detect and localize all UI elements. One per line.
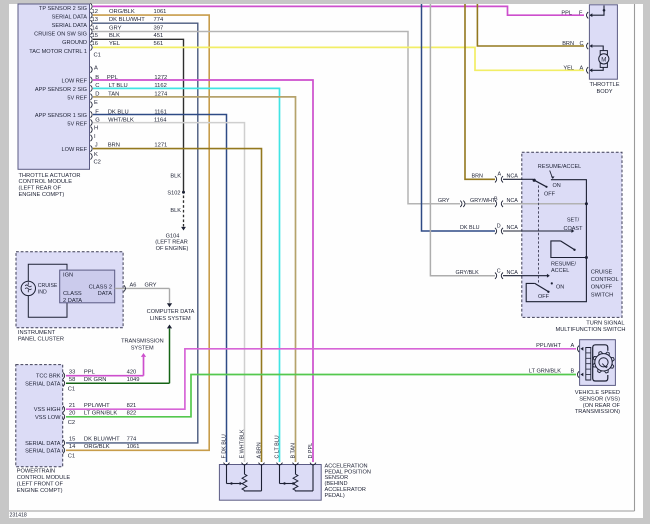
wire PPL 420 TCC brake (PCM 33) (66, 370, 144, 376)
label: cruise control on/off switch (591, 270, 619, 299)
svg-text:PPL: PPL (107, 75, 119, 81)
svg-text:BLK: BLK (109, 33, 120, 39)
svg-text:NCA: NCA (507, 174, 519, 180)
wire BRN (off-page) to cruise switch pin A (465, 4, 533, 183)
svg-text:(LEFT REAR OF: (LEFT REAR OF (19, 186, 62, 192)
svg-text:DK BLU/WHT: DK BLU/WHT (109, 17, 145, 23)
svg-text:A: A (498, 172, 502, 178)
svg-text:774: 774 (127, 437, 137, 443)
svg-text:774: 774 (154, 17, 164, 23)
junction: set/coast leg on circuit path (585, 256, 588, 259)
svg-text:LT GRN/BLK: LT GRN/BLK (84, 411, 117, 417)
svg-text:13: 13 (92, 17, 98, 23)
svg-text:1049: 1049 (127, 377, 140, 383)
svg-text:DK GRN: DK GRN (84, 377, 107, 383)
svg-text:5V REF: 5V REF (67, 95, 87, 101)
svg-text:14: 14 (69, 444, 76, 450)
wire: lamp to IGN (class 2 box) (28, 264, 67, 281)
wire BLK to ground (170, 196, 183, 225)
svg-text:D: D (95, 92, 99, 98)
switch: resume/accel on/off (bottom) (535, 262, 577, 300)
svg-text:A6: A6 (130, 283, 137, 289)
svg-text:A: A (94, 66, 98, 72)
svg-text:TRANSMISSION: TRANSMISSION (121, 339, 164, 345)
svg-text:GRY/WHT: GRY/WHT (470, 198, 496, 204)
svg-text:TP SENSOR 2 SIG: TP SENSOR 2 SIG (39, 6, 87, 12)
svg-text:ON/OFF: ON/OFF (591, 285, 613, 291)
svg-text:F: F (579, 10, 583, 16)
class 2 data module (inner box) (60, 270, 115, 304)
svg-text:58: 58 (69, 377, 75, 383)
svg-text:VSS HIGH: VSS HIGH (34, 407, 61, 413)
turn signal multifunction switch (dashed box) (522, 152, 626, 332)
svg-text:M: M (601, 56, 606, 63)
svg-text:RESUME/ACCEL: RESUME/ACCEL (538, 164, 581, 170)
svg-text:33: 33 (69, 370, 75, 376)
svg-text:397: 397 (154, 25, 164, 31)
svg-text:14: 14 (92, 25, 99, 31)
svg-text:LOW REF: LOW REF (62, 78, 88, 84)
off-page arrow: computer data lines system (147, 288, 195, 321)
svg-text:BLK: BLK (170, 173, 181, 179)
svg-text:451: 451 (154, 33, 164, 39)
svg-text:F DK BLU: F DK BLU (221, 434, 227, 458)
svg-text:E WHT/BLK: E WHT/BLK (239, 429, 245, 458)
svg-text:NCA: NCA (507, 225, 519, 231)
svg-text:OF ENGINE): OF ENGINE) (156, 246, 189, 252)
svg-text:2 DATA: 2 DATA (63, 298, 82, 304)
svg-text:APP SENSOR 2 SIG: APP SENSOR 2 SIG (35, 87, 87, 93)
svg-text:CONTROL: CONTROL (591, 277, 619, 283)
svg-text:DK BLU/WHT: DK BLU/WHT (84, 437, 120, 443)
svg-text:SET/: SET/ (567, 218, 580, 224)
svg-text:E: E (94, 100, 98, 106)
wire PPL (TP sensor 2 sig) to throttle body pin F (93, 6, 584, 16)
svg-text:BODY: BODY (596, 89, 612, 95)
svg-text:VSS LOW: VSS LOW (35, 415, 61, 421)
svg-text:B: B (571, 369, 575, 375)
svg-text:CONTROL MODULE: CONTROL MODULE (17, 475, 71, 481)
svg-text:LOW REF: LOW REF (62, 147, 88, 153)
svg-text:K: K (94, 152, 98, 158)
svg-text:GRY: GRY (438, 198, 450, 204)
svg-text:1271: 1271 (154, 143, 167, 149)
indicator lamp: cruise ind (21, 281, 58, 295)
svg-text:IGN: IGN (63, 273, 73, 279)
svg-text:(LEFT FRONT OF: (LEFT FRONT OF (17, 481, 64, 487)
svg-text:ON: ON (556, 284, 564, 290)
svg-text:S102: S102 (167, 190, 180, 196)
svg-text:(LEFT REAR: (LEFT REAR (155, 240, 188, 246)
potentiometer: APP sensor 1 (F/E/A) (227, 465, 262, 491)
svg-text:BRN: BRN (108, 143, 120, 149)
svg-text:NCA: NCA (507, 270, 519, 276)
svg-text:SERIAL DATA: SERIAL DATA (25, 441, 61, 447)
svg-text:CLASS: CLASS (63, 291, 82, 297)
svg-text:TAN: TAN (108, 92, 119, 98)
vehicle speed sensor (575, 340, 621, 416)
svg-text:CONTROL MODULE: CONTROL MODULE (19, 179, 73, 185)
svg-text:TURN SIGNAL: TURN SIGNAL (586, 320, 624, 326)
svg-text:12: 12 (92, 9, 98, 15)
svg-text:CLASS 2: CLASS 2 (89, 285, 112, 291)
svg-text:PPL: PPL (84, 370, 96, 376)
svg-text:THROTTLE ACTUATOR: THROTTLE ACTUATOR (19, 173, 81, 179)
svg-text:BLK: BLK (170, 208, 181, 214)
wire YEL 561 TAC motor control to throttle body pin A (92, 41, 585, 71)
svg-text:SERIAL DATA: SERIAL DATA (52, 15, 88, 21)
svg-text:G: G (95, 117, 100, 123)
wire BLK 451 ground (TACM 15 to S102) (92, 33, 184, 192)
svg-text:LT BLU: LT BLU (109, 83, 128, 89)
svg-text:OFF: OFF (544, 192, 556, 198)
svg-text:TCC BRK: TCC BRK (36, 374, 61, 380)
svg-text:POWERTRAIN: POWERTRAIN (17, 468, 55, 474)
wire DK BLU/WHT 774 serial data (TACM 13 to PCM 15) (66, 17, 198, 443)
svg-text:DK BLU: DK BLU (108, 109, 129, 115)
svg-text:J: J (95, 143, 98, 149)
wire stubs inside switch box (521, 179, 586, 277)
svg-text:THROTTLE: THROTTLE (589, 82, 619, 88)
svg-text:822: 822 (127, 411, 137, 417)
svg-text:A: A (580, 66, 584, 72)
wire GRY/BLK (off-page) to cruise switch pin C (430, 4, 549, 279)
svg-text:DK BLU: DK BLU (460, 225, 480, 231)
svg-text:5V REF: 5V REF (67, 121, 87, 127)
svg-text:GROUND: GROUND (62, 40, 87, 46)
svg-text:INSTRUMENT: INSTRUMENT (18, 330, 56, 336)
APP sensor pin brackets and labels (221, 429, 316, 465)
svg-text:H: H (94, 126, 98, 132)
svg-text:C1: C1 (68, 454, 75, 460)
svg-text:821: 821 (127, 403, 137, 409)
svg-text:IND: IND (38, 290, 47, 296)
svg-text:MULTIFUNCTION SWITCH: MULTIFUNCTION SWITCH (555, 327, 625, 333)
svg-text:BRN: BRN (472, 174, 483, 180)
off-page arrow: transmission system (121, 339, 164, 376)
svg-text:15: 15 (92, 33, 98, 39)
junction: pin B wire on circuit path (585, 202, 588, 205)
wire: lamp to class 2 data (28, 295, 67, 317)
svg-text:LINES SYSTEM: LINES SYSTEM (150, 316, 191, 322)
svg-text:ENGINE COMPT): ENGINE COMPT) (17, 488, 63, 494)
svg-text:SERIAL DATA: SERIAL DATA (25, 382, 61, 388)
potentiometer: APP sensor 2 (C/B/D) (280, 465, 314, 491)
module: throttle actuator control module (18, 3, 101, 169)
wire GRY A6 class 2 serial data (115, 283, 170, 292)
svg-text:YEL: YEL (109, 41, 121, 47)
svg-text:GRY: GRY (109, 25, 122, 31)
splice S102 (167, 190, 185, 196)
svg-text:231418: 231418 (10, 512, 27, 518)
svg-text:B: B (95, 75, 99, 81)
svg-text:420: 420 (127, 370, 137, 376)
svg-text:16: 16 (92, 41, 98, 47)
svg-text:BRN: BRN (562, 41, 574, 47)
svg-text:ORG/BLK: ORG/BLK (109, 9, 135, 15)
powertrain control module (dashed box) (16, 365, 75, 494)
svg-text:PEDAL): PEDAL) (325, 493, 345, 499)
switch internal circuit path (526, 180, 586, 302)
acceleration pedal position sensor (219, 463, 371, 500)
wire ORG/BLK 1061 serial data (TACM 12 to PCM 14) (66, 9, 209, 450)
svg-text:DATA: DATA (98, 291, 113, 297)
svg-text:APP SENSOR 1 SIG: APP SENSOR 1 SIG (35, 113, 87, 119)
throttle body (587, 5, 620, 95)
svg-text:C: C (95, 83, 99, 89)
svg-text:C LT BLU: C LT BLU (274, 435, 280, 458)
svg-text:1161: 1161 (154, 109, 166, 115)
svg-text:F: F (95, 109, 99, 115)
svg-text:NCA: NCA (507, 198, 519, 204)
wire PPL/WHT 821 VSS high (PCM 21 to VSS A) (66, 343, 576, 409)
svg-text:PANEL CLUSTER: PANEL CLUSTER (18, 337, 64, 343)
svg-text:LT GRN/BLK: LT GRN/BLK (529, 369, 561, 375)
svg-text:CRUISE: CRUISE (591, 270, 613, 276)
svg-text:SERIAL DATA: SERIAL DATA (52, 23, 88, 29)
svg-text:SERIAL DATA: SERIAL DATA (25, 449, 61, 455)
svg-text:ENGINE COMPT): ENGINE COMPT) (19, 192, 65, 198)
svg-text:1272: 1272 (154, 75, 167, 81)
svg-text:SYSTEM: SYSTEM (131, 345, 154, 351)
switch: set/coast (551, 218, 587, 258)
wire WHT/BLK 1164 (TACM G to APP sensor pin E) (93, 117, 245, 462)
svg-text:B TAN: B TAN (290, 443, 296, 458)
svg-text:RESUME/: RESUME/ (551, 262, 577, 268)
svg-text:C: C (580, 41, 584, 47)
svg-text:VEHICLE SPEED: VEHICLE SPEED (575, 390, 620, 396)
svg-text:561: 561 (154, 41, 164, 47)
svg-text:PPL/WHT: PPL/WHT (536, 343, 561, 349)
svg-text:15: 15 (69, 437, 75, 443)
svg-text:C1: C1 (94, 53, 101, 59)
svg-text:GRY: GRY (145, 283, 157, 289)
svg-text:D: D (497, 223, 501, 229)
svg-text:21: 21 (69, 403, 75, 409)
svg-text:1061: 1061 (154, 9, 167, 15)
module name label (19, 173, 81, 198)
svg-text:C: C (497, 268, 501, 274)
svg-text:ORG/BLK: ORG/BLK (84, 444, 110, 450)
svg-text:D PPL: D PPL (308, 443, 314, 459)
svg-text:OFF: OFF (538, 294, 550, 300)
svg-text:PPL/WHT: PPL/WHT (84, 403, 110, 409)
svg-text:CRUISE ON SW SIG: CRUISE ON SW SIG (34, 32, 87, 38)
wire LT GRN/BLK 822 VSS low (PCM 20 to VSS B) (66, 369, 576, 417)
svg-text:COAST: COAST (564, 226, 584, 232)
svg-text:1274: 1274 (154, 92, 168, 98)
svg-text:C2: C2 (94, 160, 101, 166)
svg-text:CRUISE: CRUISE (38, 283, 58, 289)
wire BRN (off-page) to throttle body pin C (477, 4, 584, 47)
svg-text:1164: 1164 (154, 117, 167, 123)
wire DK BLU 1161 (TACM F to APP sensor pin F) (93, 109, 227, 462)
svg-text:C2: C2 (68, 420, 75, 426)
svg-text:GRY/BLK: GRY/BLK (456, 270, 480, 276)
svg-text:TRANSMISSION): TRANSMISSION) (575, 409, 620, 415)
svg-text:C1: C1 (68, 387, 75, 393)
svg-text:1061: 1061 (127, 444, 140, 450)
wire GRY 397 cruise on sw sig, becomes GRY/WHT at splice, to switch pin B (92, 25, 587, 207)
svg-text:YEL: YEL (563, 66, 574, 72)
svg-text:ACCEL: ACCEL (551, 268, 569, 274)
off-page arrow into computer data lines (DK GRN) (167, 325, 172, 384)
svg-text:1162: 1162 (154, 83, 166, 89)
svg-text:SENSOR (VSS): SENSOR (VSS) (579, 396, 620, 402)
instrument panel cluster (dashed box) (16, 252, 123, 343)
svg-text:ON: ON (553, 183, 561, 189)
wire PPL 1272 (TACM B to APP sensor pin D) (93, 75, 313, 462)
svg-text:PPL: PPL (561, 10, 572, 16)
wire DK GRN 1049 serial data (PCM 58) (66, 377, 170, 383)
svg-text:A: A (571, 343, 575, 349)
switch mechanical linkage (dashed) (538, 186, 540, 284)
svg-text:COMPUTER DATA: COMPUTER DATA (147, 309, 195, 315)
wire LT BLU 1162 (TACM C to APP sensor pin C) (93, 83, 280, 462)
motor M (throttle body) (590, 46, 609, 70)
svg-text:G104: G104 (166, 234, 180, 240)
svg-text:TAC MOTOR CNTRL 1: TAC MOTOR CNTRL 1 (29, 49, 87, 55)
svg-text:SWITCH: SWITCH (591, 292, 613, 298)
ground G104 (155, 224, 188, 252)
throttle body TP sensor stub (pin F) (590, 6, 605, 16)
switch: resume/accel (top) (533, 164, 582, 198)
wire DK BLU (off-page) to cruise switch pin D (422, 4, 575, 234)
wire BRN 1271 (TACM J to APP sensor pin A) (93, 143, 262, 462)
svg-text:A BRN: A BRN (256, 442, 262, 458)
svg-text:(ON REAR OF: (ON REAR OF (583, 403, 621, 409)
VSS sensor icon (586, 345, 614, 381)
svg-text:WHT/BLK: WHT/BLK (108, 117, 134, 123)
svg-text:20: 20 (69, 411, 75, 417)
wire TAN 1274 (TACM D to APP sensor pin B) (93, 92, 296, 462)
